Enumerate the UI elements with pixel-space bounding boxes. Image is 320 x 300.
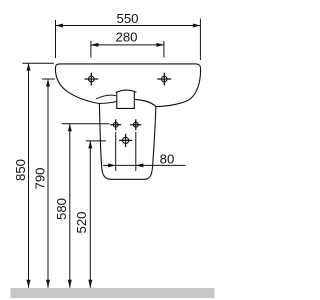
svg-text:790: 790: [33, 167, 48, 189]
basin bowl: [55, 64, 200, 107]
svg-text:850: 850: [13, 159, 28, 181]
dimension 80: [103, 132, 186, 171]
dimension 850: [13, 63, 54, 287]
svg-text:550: 550: [116, 11, 138, 26]
drain box (trap cover notch): [116, 90, 137, 108]
svg-text:280: 280: [115, 30, 137, 45]
drain bulge curve: [96, 95, 116, 99]
dimension 550: [56, 11, 201, 60]
fixing hole left: [110, 119, 121, 130]
floor (ground bar): [11, 288, 215, 298]
dimension 520: [74, 141, 106, 288]
svg-text:580: 580: [54, 198, 69, 220]
lower fixing hole: [119, 134, 132, 147]
tap hole right: [157, 73, 171, 86]
dimension 580: [54, 124, 110, 288]
pedestal (half-pedestal shroud): [99, 104, 155, 180]
fixing hole right: [130, 119, 141, 130]
svg-text:520: 520: [74, 211, 89, 233]
tap hole left: [84, 73, 98, 86]
dimension 280: [91, 30, 164, 58]
dimension 790: [33, 79, 55, 288]
svg-text:80: 80: [160, 151, 175, 166]
